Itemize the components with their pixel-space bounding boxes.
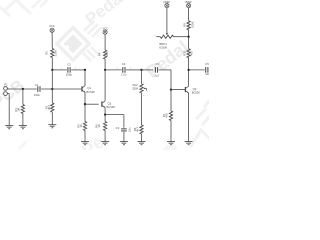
- svg-text:BC548: BC548: [107, 105, 116, 109]
- svg-text:1: 1: [61, 68, 62, 70]
- svg-text:RV2: RV2: [133, 83, 139, 87]
- svg-text:47K: 47K: [165, 113, 169, 118]
- svg-text:VREF: VREF: [163, 0, 171, 4]
- svg-text:1.5M: 1.5M: [53, 50, 57, 57]
- svg-text:2: 2: [168, 66, 169, 68]
- svg-text:2u2: 2u2: [154, 74, 159, 78]
- resistor R7: [169, 111, 172, 121]
- wiper RV1 arrow: [166, 33, 168, 35]
- svg-text:BM5.2: BM5.2: [159, 42, 167, 46]
- node output junction: [187, 69, 189, 71]
- capacitor C1: [37, 86, 39, 92]
- capacitor C3: [121, 128, 127, 130]
- node R4/Q2 collector junction: [104, 69, 106, 71]
- connector P1 pin 1: [4, 87, 8, 91]
- resistor R9: [187, 21, 190, 30]
- resistor RV1 trimmer: [160, 35, 173, 38]
- power flag VCC2: [103, 30, 107, 34]
- wire out node to C5: [189, 69, 205, 71]
- wire C3 bottom: [123, 132, 125, 142]
- wire R6 top: [104, 115, 106, 122]
- node Q3 base junction: [170, 88, 172, 90]
- wire RV2 top: [141, 70, 143, 84]
- ground R6: [101, 141, 109, 143]
- ground R7: [167, 141, 175, 143]
- wire VCC2 to R4: [104, 34, 106, 50]
- svg-text:R4: R4: [98, 52, 102, 56]
- capacitor C2: [67, 67, 69, 73]
- resistor R5: [83, 122, 86, 131]
- node Q2 emitter junction: [104, 113, 106, 115]
- wire R10 to out node: [188, 58, 190, 70]
- node R2/C2 junction: [51, 69, 53, 71]
- wire C1 to bias node: [41, 88, 82, 90]
- capacitor C4: [122, 67, 124, 73]
- wire RV2 to C6: [142, 69, 154, 71]
- svg-text:C6: C6: [155, 62, 159, 66]
- wire VREF2 to R9: [188, 8, 190, 21]
- capacitor C5: [205, 67, 207, 73]
- wire C4 to RV2: [126, 69, 141, 71]
- resistor R8: [140, 125, 143, 134]
- ground R1: [19, 125, 27, 127]
- svg-text:Q1: Q1: [87, 86, 91, 90]
- svg-text:K250K: K250K: [159, 46, 167, 50]
- wire bend down: [170, 70, 172, 90]
- node bias junction: [51, 88, 53, 90]
- svg-text:10K: 10K: [105, 51, 109, 56]
- ground R5: [81, 141, 89, 143]
- svg-text:Q2: Q2: [108, 101, 112, 105]
- svg-text:100n: 100n: [34, 93, 41, 97]
- wire C3 top: [123, 115, 125, 128]
- svg-text:VCC: VCC: [49, 24, 55, 28]
- wire R7 top: [170, 90, 172, 111]
- svg-text:10u: 10u: [127, 127, 131, 132]
- svg-text:2.2u: 2.2u: [121, 72, 127, 76]
- wire Q1 emitter: [84, 92, 86, 104]
- wire Q1 emitter to Q2 base: [85, 103, 99, 105]
- ground input return: [5, 125, 13, 127]
- wire RV1 left lead: [156, 36, 160, 38]
- wire to Q3 base: [171, 89, 185, 91]
- svg-text:250K: 250K: [132, 87, 138, 91]
- wire R6 bottom: [104, 131, 106, 142]
- svg-text:1K: 1K: [79, 124, 83, 128]
- wire R4 to rail: [104, 59, 106, 70]
- svg-text:VCC: VCC: [103, 26, 109, 30]
- svg-text:10u: 10u: [205, 72, 209, 76]
- wire bias column: [51, 70, 53, 89]
- resistor R1: [21, 105, 24, 114]
- svg-text:1: 1: [143, 82, 144, 84]
- svg-text:4K7: 4K7: [190, 50, 194, 55]
- node trimpot junction: [187, 36, 189, 38]
- svg-text:1: 1: [117, 68, 118, 70]
- wire C6 to bend: [159, 69, 171, 71]
- power flag VREF2: [187, 4, 191, 8]
- wire input signal: [7, 88, 36, 90]
- svg-text:1M: 1M: [17, 107, 21, 112]
- power flag VREF1: [165, 4, 169, 8]
- watermark: [1, 0, 47, 15]
- wire R5 top: [84, 104, 86, 121]
- wire Q2 collector: [104, 70, 106, 101]
- svg-text:C5: C5: [205, 62, 209, 66]
- node input/R1 junction: [22, 88, 24, 90]
- wire R5 bottom: [84, 131, 86, 142]
- wire rail Q2 to C4: [105, 69, 122, 71]
- resistor R4: [104, 50, 107, 59]
- ground Q3 emitter: [185, 141, 193, 143]
- wire R7 bottom: [170, 121, 172, 142]
- svg-text:2: 2: [50, 113, 51, 115]
- wire R3 top: [51, 89, 53, 103]
- svg-text:4K7: 4K7: [136, 127, 140, 132]
- wire R8 bottom: [141, 134, 143, 142]
- resistor R3: [51, 103, 54, 112]
- ground R3: [48, 124, 56, 126]
- node RV2 junction: [140, 69, 142, 71]
- svg-text:C2: C2: [67, 62, 71, 66]
- connector P1 pin 2: [4, 92, 8, 96]
- svg-text:C1: C1: [35, 83, 39, 87]
- svg-text:Q3: Q3: [193, 87, 197, 91]
- wire VREF1 wiper: [166, 8, 168, 34]
- svg-text:100K: 100K: [190, 21, 194, 28]
- wire R2 to node: [51, 58, 53, 70]
- transistor Q3: [184, 87, 186, 92]
- svg-text:P1: P1: [4, 82, 8, 86]
- capacitor C6: [154, 67, 156, 73]
- wire RV1 right lead: [174, 36, 189, 38]
- svg-text:C4: C4: [122, 62, 126, 66]
- power flag VCC1: [50, 28, 54, 32]
- wire Q3 collector: [188, 70, 190, 86]
- wire R1 top: [22, 89, 24, 105]
- wiper RV2: [145, 87, 147, 89]
- resistor R10: [187, 49, 190, 58]
- resistor R2: [51, 49, 54, 58]
- ground C3: [120, 141, 128, 143]
- node Q1 collector junction: [84, 69, 86, 71]
- svg-text:R9: R9: [182, 23, 186, 27]
- node Q1 emitter junction: [84, 103, 86, 105]
- transistor Q2: [101, 102, 103, 107]
- wire Q2 emitter: [104, 108, 106, 115]
- wire R3 bottom: [51, 112, 53, 125]
- wire R9 to trim node: [188, 30, 190, 37]
- svg-text:1: 1: [155, 35, 156, 37]
- ground R8: [138, 141, 146, 143]
- wire R1 bottom: [22, 114, 24, 126]
- svg-text:BC548: BC548: [86, 90, 95, 94]
- svg-text:3: 3: [143, 95, 144, 97]
- wire Q3 emitter: [188, 93, 190, 142]
- transistor Q1: [81, 86, 83, 91]
- resistor R6: [104, 122, 107, 131]
- wire C2 to Q1 collector: [71, 69, 85, 71]
- wire VCC1 to R2: [51, 32, 53, 48]
- wire Q1 collector: [84, 70, 86, 86]
- potentiometer RV2: [140, 84, 143, 93]
- wire Q2 emitter to C3: [105, 114, 124, 116]
- svg-text:R2: R2: [45, 51, 49, 55]
- wire node to C2: [52, 69, 67, 71]
- svg-text:VREF: VREF: [185, 0, 193, 4]
- svg-text:1K: 1K: [97, 124, 101, 128]
- svg-text:BC550: BC550: [192, 91, 201, 95]
- svg-text:100p: 100p: [66, 72, 73, 76]
- svg-text:R10: R10: [182, 50, 186, 56]
- svg-text:4K7: 4K7: [47, 105, 51, 110]
- svg-text:C3: C3: [116, 126, 120, 130]
- wire trim node to R10: [188, 37, 190, 49]
- wire input return: [7, 93, 9, 95]
- svg-text:2: 2: [147, 91, 148, 93]
- wire RV2 to R8: [141, 93, 143, 125]
